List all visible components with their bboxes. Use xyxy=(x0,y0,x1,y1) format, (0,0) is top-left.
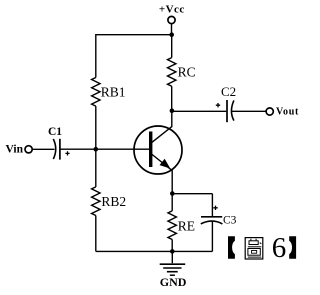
svg-text:Vout: Vout xyxy=(276,107,299,118)
svg-text:C3: C3 xyxy=(223,215,237,227)
svg-text:RC: RC xyxy=(178,64,196,79)
svg-text:GND: GND xyxy=(160,275,187,289)
svg-text:RB2: RB2 xyxy=(101,194,126,209)
svg-text:RB1: RB1 xyxy=(101,84,126,99)
svg-text:C2: C2 xyxy=(221,84,236,99)
svg-text:+Vcc: +Vcc xyxy=(159,3,185,15)
svg-text:RE: RE xyxy=(178,219,195,234)
svg-text:Vin: Vin xyxy=(6,143,24,155)
svg-text:6: 6 xyxy=(272,232,287,264)
svg-text:C1: C1 xyxy=(48,126,62,138)
